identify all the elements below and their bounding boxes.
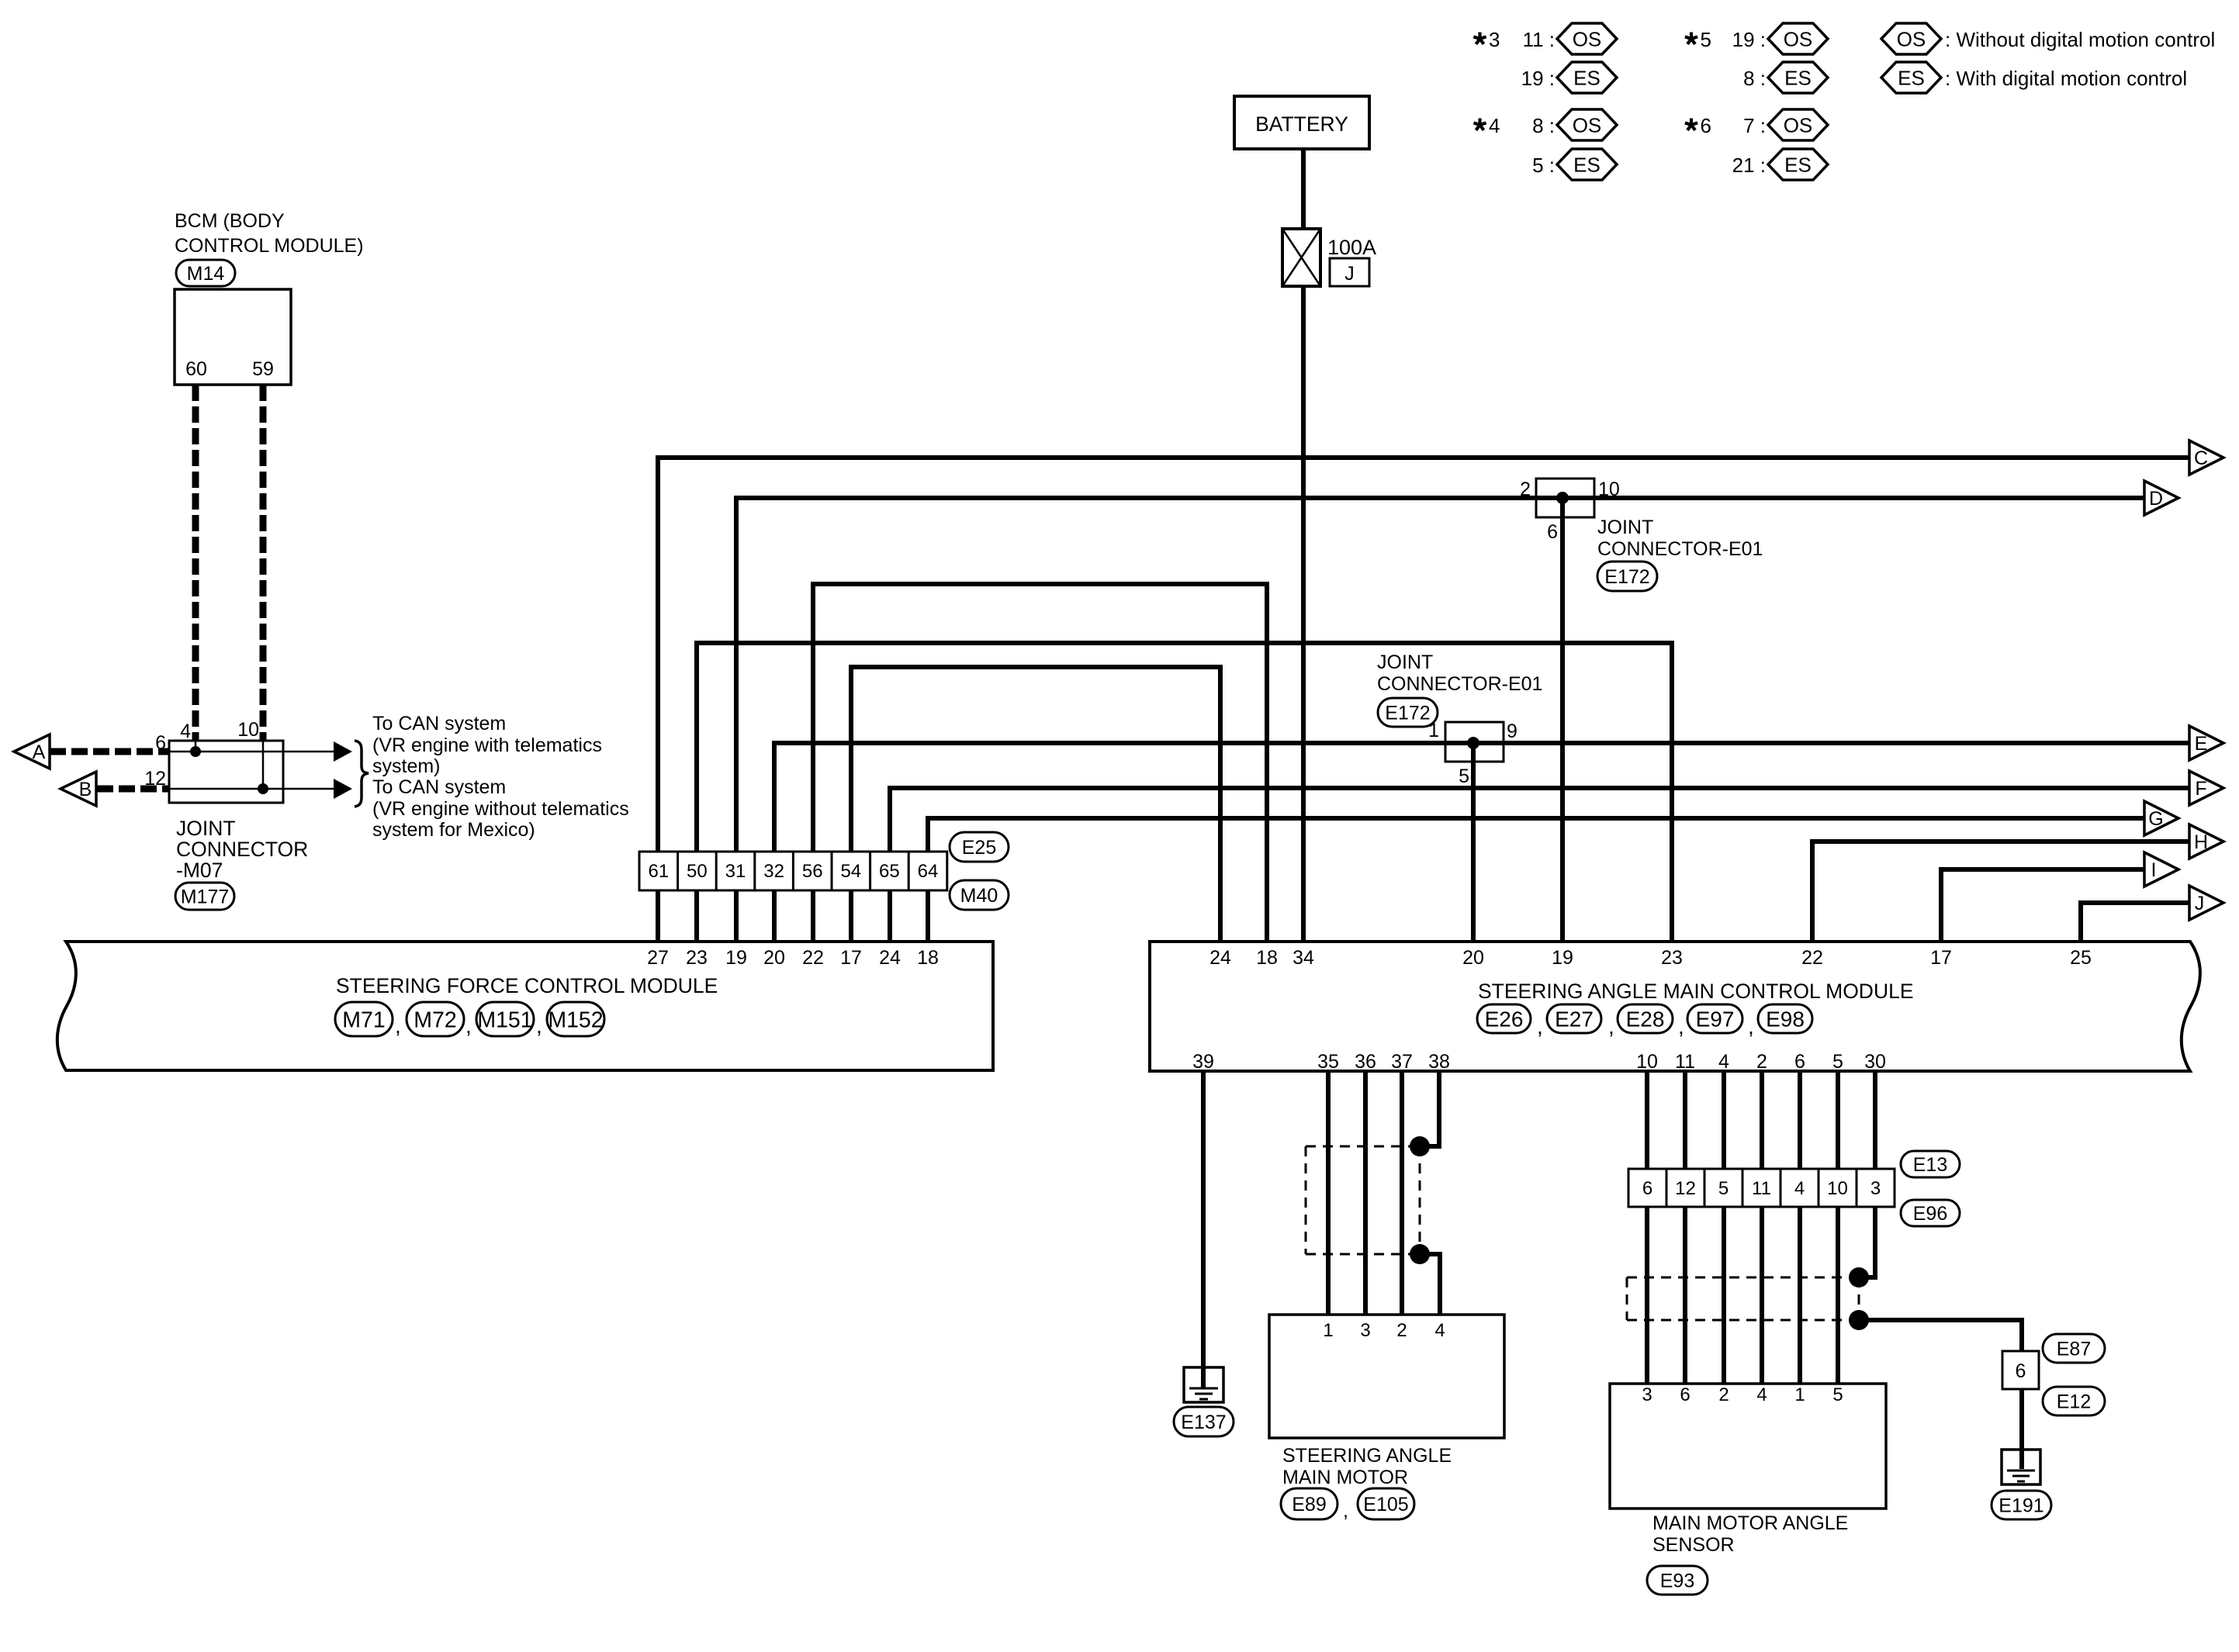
svg-text:E97: E97: [1696, 1007, 1735, 1032]
junction dot sensor shield top: [1849, 1267, 1869, 1287]
svg-text:20: 20: [763, 947, 785, 969]
svg-text:E172: E172: [1604, 566, 1649, 588]
connector label E172 (lower): [1378, 698, 1438, 727]
svg-text:2: 2: [1396, 1320, 1407, 1341]
svg-text:54: 54: [840, 861, 861, 882]
junction dot joint connector E172 upper: [1556, 492, 1569, 504]
svg-text:19 :: 19 :: [1521, 67, 1555, 90]
shield dashed link sensor dots: [1858, 1277, 1860, 1320]
arrow A (to CAN, left): [14, 734, 50, 769]
svg-text:CONTROL MODULE): CONTROL MODULE): [175, 235, 364, 257]
svg-text:system): system): [372, 755, 441, 777]
svg-text:To CAN system: To CAN system: [372, 776, 506, 798]
svg-text:E98: E98: [1766, 1007, 1805, 1032]
svg-text:4: 4: [1718, 1051, 1729, 1073]
svg-text:OS: OS: [1573, 113, 1602, 137]
svg-text:J: J: [1344, 263, 1355, 285]
connector label E96: [1901, 1200, 1960, 1226]
arrow D: [2144, 481, 2178, 515]
svg-text:1: 1: [1323, 1320, 1333, 1341]
connector label E27: [1547, 1004, 1601, 1033]
svg-text:E137: E137: [1181, 1412, 1226, 1433]
junction dot sensor shield bottom: [1849, 1310, 1869, 1330]
svg-text:5 :: 5 :: [1532, 154, 1555, 177]
ground symbol E191: [2002, 1450, 2040, 1484]
svg-text:32: 32: [763, 861, 784, 882]
wire pin 10 to sensor pin 3: [1645, 1071, 1649, 1384]
svg-text:12: 12: [144, 768, 166, 790]
module STEERING FORCE CONTROL MODULE box (torn left edge): [57, 942, 993, 1070]
wire pin 30 to shield junction: [1859, 1071, 1875, 1277]
connector label E191: [1992, 1491, 2051, 1519]
connector label M177: [175, 883, 234, 910]
svg-text:36: 36: [1355, 1051, 1376, 1073]
svg-text:BATTERY: BATTERY: [1255, 112, 1348, 136]
connector label E28: [1618, 1004, 1673, 1033]
joint connector-E01 box E172 (lower): [1445, 722, 1504, 762]
svg-text:18: 18: [1256, 947, 1278, 969]
wire shield junction to motor pin 4: [1420, 1254, 1440, 1315]
svg-text:E105: E105: [1363, 1494, 1408, 1515]
svg-text:H: H: [2194, 831, 2208, 853]
svg-text:(VR engine without telematics: (VR engine without telematics: [372, 798, 629, 820]
svg-text:5: 5: [1459, 766, 1469, 787]
svg-text:11: 11: [1675, 1051, 1695, 1073]
svg-text:OS: OS: [1897, 27, 1926, 50]
svg-text:ES: ES: [1573, 66, 1601, 89]
main motor angle sensor box E93: [1610, 1384, 1886, 1509]
svg-text:60: 60: [185, 358, 207, 380]
wire BCM pin 60 to joint connector pin 4 (CAN, striped): [192, 385, 199, 741]
svg-text:6: 6: [1701, 114, 1711, 137]
shield dashed line motor (top): [1306, 1146, 1410, 1148]
svg-text:E191: E191: [1998, 1495, 2043, 1517]
junction dot M07 pin10/pin12: [258, 783, 268, 794]
svg-text:A: A: [33, 741, 46, 763]
filled arrow to CAN system 1: [334, 741, 352, 762]
connector label E12: [2043, 1387, 2105, 1415]
connector label E26: [1477, 1004, 1531, 1033]
wire pin 6 to sensor pin 1: [1798, 1071, 1802, 1384]
svg-text:M71: M71: [342, 1007, 385, 1032]
wire joint connector M07 internal line pin 12 to CAN arrow 2: [169, 788, 334, 790]
svg-text:M152: M152: [548, 1007, 603, 1032]
svg-text:19: 19: [725, 947, 747, 969]
svg-text:24: 24: [1209, 947, 1231, 969]
connector label M72: [407, 1002, 464, 1036]
arrow J: [2189, 886, 2223, 920]
wire J: pin 25 to arrow J: [2081, 903, 2189, 942]
shield dashed line sensor (bottom): [1627, 1319, 1849, 1322]
svg-text:18: 18: [917, 947, 939, 969]
svg-text:59: 59: [252, 358, 274, 380]
ground symbol E137: [1184, 1367, 1223, 1402]
svg-text:31: 31: [725, 861, 746, 882]
svg-text:6: 6: [1680, 1384, 1690, 1405]
battery BATTERY box: [1234, 96, 1369, 149]
svg-text:22: 22: [1801, 947, 1823, 969]
svg-text:10: 10: [1598, 479, 1620, 500]
legend star *6: [1685, 119, 1697, 130]
shield dashed line motor (bottom): [1306, 1253, 1410, 1256]
svg-text:19 :: 19 :: [1732, 28, 1766, 51]
svg-text:17: 17: [1930, 947, 1952, 969]
connector label E105: [1358, 1488, 1414, 1519]
svg-text:MAIN MOTOR ANGLE: MAIN MOTOR ANGLE: [1652, 1512, 1848, 1534]
svg-text:10: 10: [237, 719, 259, 741]
svg-text:SENSOR: SENSOR: [1652, 1534, 1735, 1556]
svg-text:E87: E87: [2057, 1339, 2091, 1360]
connector label E13: [1901, 1151, 1960, 1177]
svg-text:6: 6: [1794, 1051, 1805, 1073]
connector label E137: [1174, 1407, 1234, 1436]
svg-text:: Without digital motion contr: : Without digital motion control: [1945, 28, 2215, 51]
svg-text:2: 2: [1756, 1051, 1767, 1073]
wire pin 11 to sensor pin 6: [1683, 1071, 1687, 1384]
svg-text:5: 5: [1832, 1384, 1843, 1405]
svg-text:(VR engine with telematics: (VR engine with telematics: [372, 734, 602, 756]
svg-text:C: C: [2194, 448, 2208, 469]
svg-text:61: 61: [648, 861, 669, 882]
svg-text:E28: E28: [1626, 1007, 1665, 1032]
svg-text:11: 11: [1752, 1178, 1771, 1199]
filled arrow to CAN system 2: [334, 779, 352, 799]
wire D: pin 19 to arrow D through joint connector E172: [736, 498, 2144, 942]
connector label E87: [2043, 1334, 2105, 1363]
arrow H: [2189, 824, 2223, 859]
svg-text:5: 5: [1718, 1178, 1729, 1199]
svg-text:,: ,: [536, 1014, 542, 1038]
wire pin 4 to sensor pin 2: [1722, 1071, 1726, 1384]
svg-text:M14: M14: [187, 263, 225, 285]
svg-text:D: D: [2149, 488, 2163, 510]
svg-text:JOINT: JOINT: [1597, 517, 1653, 538]
svg-text:,: ,: [465, 1014, 472, 1038]
svg-text:2: 2: [1520, 479, 1531, 500]
connector label M40: [950, 880, 1009, 910]
svg-text:64: 64: [918, 861, 939, 882]
steering angle main motor box E89/E105: [1269, 1315, 1504, 1438]
wire pin 36 to motor pin 3: [1363, 1071, 1368, 1315]
arrow I: [2144, 852, 2178, 886]
svg-text:,: ,: [1678, 1014, 1684, 1039]
connector label E25: [950, 832, 1009, 862]
svg-text:M151: M151: [477, 1007, 532, 1032]
svg-text:10: 10: [1827, 1178, 1848, 1199]
connector label M152: [547, 1002, 604, 1036]
wire pin 35 to motor pin 1: [1326, 1071, 1331, 1315]
svg-text:10: 10: [1636, 1051, 1658, 1073]
joint connector -M07 box M177: [169, 741, 283, 803]
shield dashed line motor (left): [1305, 1146, 1307, 1254]
svg-text:30: 30: [1864, 1051, 1886, 1073]
junction dot joint connector E172 lower: [1467, 737, 1479, 749]
svg-text:F: F: [2195, 778, 2206, 800]
svg-text:M40: M40: [960, 885, 998, 907]
svg-text:,: ,: [1608, 1014, 1614, 1039]
svg-text:3: 3: [1870, 1178, 1881, 1199]
wire pin 38 to shield junction: [1420, 1071, 1439, 1146]
wire pin 37 to motor pin 2: [1400, 1071, 1404, 1315]
svg-text:9: 9: [1507, 721, 1517, 742]
wire M07 internal stub pin 4: [195, 741, 197, 752]
wire: pin 22 (left) to pin 18 (right): [813, 584, 1267, 942]
svg-text:4: 4: [1756, 1384, 1767, 1405]
svg-text:8 :: 8 :: [1743, 67, 1766, 90]
svg-text:E25: E25: [962, 837, 996, 859]
svg-text:E172: E172: [1385, 703, 1430, 724]
connector label E89: [1281, 1488, 1338, 1519]
wire F: pin 24 to arrow F: [890, 788, 2189, 942]
svg-text:I: I: [2151, 859, 2157, 881]
wire joint connector pin 6 to arrow A (CAN, striped): [50, 748, 169, 755]
svg-text:23: 23: [1661, 947, 1683, 969]
svg-text:4: 4: [1489, 114, 1500, 137]
wire pin 5 to sensor pin 5: [1836, 1071, 1840, 1384]
svg-text:2: 2: [1718, 1384, 1729, 1405]
svg-text:ES: ES: [1784, 153, 1812, 176]
svg-text:BCM (BODY: BCM (BODY: [175, 210, 285, 232]
svg-text:OS: OS: [1784, 113, 1813, 137]
svg-text:27: 27: [647, 947, 669, 969]
svg-text:35: 35: [1317, 1051, 1339, 1073]
module STEERING ANGLE MAIN CONTROL MODULE box (torn right edge): [1150, 942, 2200, 1071]
wire: pin 23 (left) to pin 23 (right): [697, 643, 1672, 942]
svg-text:20: 20: [1462, 947, 1484, 969]
wire joint connector M07 internal line pin 6 to CAN arrow 1: [169, 751, 334, 753]
connector label E93: [1647, 1566, 1708, 1595]
svg-text:25: 25: [2070, 947, 2092, 969]
svg-text:E27: E27: [1555, 1007, 1594, 1032]
connector label E97: [1687, 1004, 1742, 1033]
svg-text:6: 6: [1642, 1178, 1652, 1199]
svg-text:E96: E96: [1913, 1203, 1947, 1225]
svg-text:37: 37: [1391, 1051, 1413, 1073]
BCM (BODY CONTROL MODULE) box M14: [175, 289, 291, 385]
wire BCM pin 59 to joint connector pin 10 (CAN, striped): [260, 385, 267, 741]
svg-text:19: 19: [1552, 947, 1573, 969]
legend OS meaning: [1881, 23, 1941, 54]
brace for CAN system notes: [355, 741, 369, 807]
svg-text:-M07: -M07: [176, 859, 223, 882]
wire H: pin 22 to arrow H: [1812, 842, 2189, 942]
connector label E98: [1758, 1004, 1812, 1033]
svg-text:E13: E13: [1913, 1154, 1947, 1176]
wire E: pin 20 to arrow E through joint connector E172: [774, 743, 2189, 942]
svg-text:OS: OS: [1784, 27, 1813, 50]
arrow E: [2189, 726, 2223, 760]
legend star *4: [1473, 119, 1486, 130]
svg-text:6: 6: [2016, 1360, 2026, 1382]
connector strip E25/M40 pins 61 50 31 32 56 54 65 64: [639, 852, 947, 890]
shield dashed line sensor (left): [1626, 1277, 1628, 1320]
wire pin 39 to ground E137: [1201, 1071, 1206, 1389]
svg-text:J: J: [2195, 893, 2205, 914]
fuse 100A J: [1282, 229, 1320, 286]
fuse label box J: [1330, 258, 1369, 286]
svg-text:,: ,: [1343, 1500, 1348, 1522]
svg-text:ES: ES: [1898, 66, 1925, 89]
wire joint connector E172 pin 6 to pin 19: [1560, 498, 1565, 942]
svg-text:24: 24: [879, 947, 901, 969]
svg-text:STEERING FORCE CONTROL MODULE: STEERING FORCE CONTROL MODULE: [336, 974, 718, 997]
legend ES meaning: [1881, 62, 1941, 93]
svg-text:100A: 100A: [1327, 236, 1376, 259]
svg-text:OS: OS: [1573, 27, 1602, 50]
svg-text:65: 65: [879, 861, 900, 882]
svg-text:E: E: [2195, 733, 2208, 755]
junction dot M07 pin4/pin6: [190, 746, 201, 757]
wire battery to fuse: [1301, 149, 1306, 229]
svg-text:,: ,: [395, 1014, 401, 1038]
junction dot motor shield top: [1410, 1136, 1430, 1156]
wire fuse to pin 34: [1301, 286, 1306, 942]
wire G: pin 18 to arrow G: [928, 818, 2144, 942]
svg-text:STEERING ANGLE MAIN CONTROL MO: STEERING ANGLE MAIN CONTROL MODULE: [1478, 980, 1914, 1003]
svg-text:,: ,: [1748, 1014, 1754, 1039]
legend star *5: [1685, 33, 1697, 44]
connector label M14: [176, 260, 235, 286]
svg-text:50: 50: [687, 861, 708, 882]
shield dashed line sensor (top): [1627, 1277, 1849, 1279]
svg-text:E12: E12: [2057, 1391, 2091, 1413]
wire: pin 17 (left) to pin 24 (right): [851, 667, 1220, 942]
junction dot motor shield bottom: [1410, 1244, 1430, 1264]
svg-text:22: 22: [802, 947, 824, 969]
wire pin 2 to sensor pin 4: [1760, 1071, 1764, 1384]
wire I: pin 17 to arrow I: [1941, 869, 2144, 942]
svg-text:38: 38: [1428, 1051, 1450, 1073]
svg-text:5: 5: [1832, 1051, 1843, 1073]
arrow B (to CAN, left): [61, 772, 96, 806]
svg-text:E93: E93: [1660, 1571, 1694, 1592]
svg-text:,: ,: [1537, 1014, 1543, 1039]
svg-text:21 :: 21 :: [1732, 154, 1766, 177]
svg-text:1: 1: [1428, 720, 1439, 741]
svg-text:M72: M72: [414, 1007, 456, 1032]
svg-text:CONNECTOR-E01: CONNECTOR-E01: [1597, 538, 1763, 560]
svg-text:7 :: 7 :: [1743, 114, 1766, 137]
svg-text:8 :: 8 :: [1532, 114, 1555, 137]
svg-text:ES: ES: [1784, 66, 1812, 89]
svg-text:11 :: 11 :: [1523, 28, 1555, 51]
svg-text:1: 1: [1794, 1384, 1805, 1405]
svg-text:ES: ES: [1573, 153, 1601, 176]
svg-text:B: B: [79, 779, 92, 800]
shield dashed link motor dots: [1419, 1146, 1421, 1254]
svg-text:CONNECTOR-E01: CONNECTOR-E01: [1377, 673, 1542, 695]
svg-text:12: 12: [1675, 1178, 1696, 1199]
joint connector-E01 box E172 (upper): [1536, 479, 1594, 517]
legend star *3: [1473, 33, 1486, 44]
svg-text:34: 34: [1293, 947, 1314, 969]
svg-text:4: 4: [1434, 1320, 1445, 1341]
wire C: pin 27 to arrow C: [658, 458, 2189, 942]
wire joint connector pin 12 to arrow B (CAN, striped): [97, 786, 169, 793]
svg-text:4: 4: [180, 721, 191, 742]
connector box 6 E87/E12: [2002, 1351, 2039, 1389]
wire shield junction to connector 6 and ground E191: [1859, 1320, 2022, 1351]
svg-text:To CAN system: To CAN system: [372, 713, 506, 734]
svg-text:: With digital motion control: : With digital motion control: [1945, 67, 2187, 90]
svg-text:CONNECTOR: CONNECTOR: [176, 838, 308, 861]
svg-text:M177: M177: [181, 886, 230, 908]
svg-text:G: G: [2148, 808, 2163, 830]
arrow C: [2189, 441, 2223, 475]
wire M07 internal stub pin 10: [262, 741, 265, 789]
svg-text:6: 6: [155, 732, 166, 754]
svg-text:JOINT: JOINT: [1377, 651, 1433, 673]
svg-text:5: 5: [1701, 28, 1711, 51]
svg-text:3: 3: [1360, 1320, 1370, 1341]
svg-text:MAIN MOTOR: MAIN MOTOR: [1282, 1467, 1408, 1488]
svg-text:3: 3: [1642, 1384, 1652, 1405]
svg-text:system for Mexico): system for Mexico): [372, 819, 535, 841]
svg-text:STEERING ANGLE: STEERING ANGLE: [1282, 1445, 1452, 1467]
arrow G: [2144, 801, 2178, 835]
wire joint connector E172 pin 5 to pin 20: [1471, 743, 1476, 942]
connector label E172 (upper): [1597, 562, 1657, 591]
svg-text:3: 3: [1489, 28, 1500, 51]
svg-text:E26: E26: [1485, 1007, 1524, 1032]
svg-text:4: 4: [1794, 1178, 1805, 1199]
connector strip E13/E96 pins 6 12 5 11 4 10 3: [1628, 1169, 1895, 1207]
arrow F: [2189, 771, 2223, 805]
svg-text:23: 23: [686, 947, 708, 969]
svg-text:JOINT: JOINT: [176, 817, 236, 840]
connector label M71: [335, 1002, 393, 1036]
svg-text:56: 56: [802, 861, 823, 882]
svg-text:39: 39: [1192, 1051, 1214, 1073]
svg-text:17: 17: [840, 947, 862, 969]
svg-text:E89: E89: [1292, 1494, 1326, 1515]
svg-text:6: 6: [1547, 521, 1558, 543]
connector label M151: [476, 1002, 534, 1036]
